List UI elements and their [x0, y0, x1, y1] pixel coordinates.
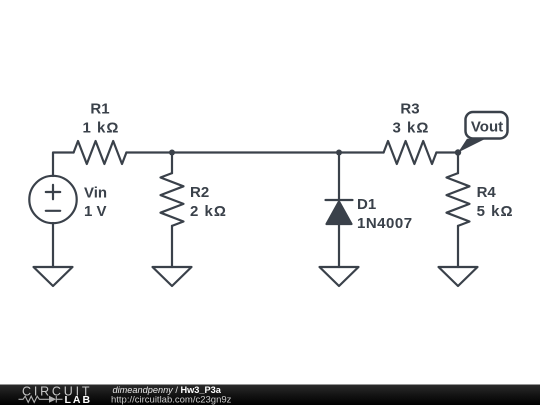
ground at Vin — [34, 267, 73, 286]
svg-text:R3: R3 — [400, 101, 419, 118]
wire Vin- to ground — [52, 223, 54, 267]
wire R3 to node Vout — [436, 151, 458, 153]
resistor R3 — [384, 141, 437, 164]
svg-text:Vout: Vout — [471, 119, 503, 136]
svg-text:3 kΩ: 3 kΩ — [393, 120, 430, 137]
node A junction dot — [169, 150, 175, 156]
svg-text:D1: D1 — [357, 196, 376, 213]
ground at D1 — [320, 267, 359, 286]
wire Vin+ to R1 — [53, 153, 74, 177]
svg-text:1 V: 1 V — [84, 203, 107, 220]
svg-text:R2: R2 — [190, 184, 209, 201]
svg-text:dimeandpenny / Hw3_P3a: dimeandpenny / Hw3_P3a — [113, 385, 222, 395]
wire node Vout to R4 — [457, 153, 459, 174]
ground at R2 — [153, 267, 192, 286]
resistor R1 — [74, 141, 127, 164]
wire node B to D1 — [338, 153, 340, 201]
flag Vout — [458, 112, 508, 153]
svg-text:1N4007: 1N4007 — [357, 215, 413, 232]
svg-text:R4: R4 — [477, 184, 497, 201]
voltage source Vin — [29, 176, 76, 223]
wire node A to R2 — [171, 153, 173, 174]
wire R4 to ground — [457, 226, 459, 267]
svg-text:R1: R1 — [90, 101, 109, 118]
footer logo resistor-diode squiggle — [19, 396, 63, 403]
svg-text:5 kΩ: 5 kΩ — [477, 203, 514, 220]
svg-text:1 kΩ: 1 kΩ — [83, 120, 120, 137]
wire node A to node B — [172, 151, 339, 153]
ground at R4 — [439, 267, 478, 286]
resistor R4 — [447, 173, 470, 226]
node Vout junction dot — [455, 149, 461, 155]
svg-text:http://circuitlab.com/c23gn9z: http://circuitlab.com/c23gn9z — [111, 395, 232, 405]
wire R2 to ground — [171, 226, 173, 267]
node B junction dot — [336, 150, 342, 156]
wire node B to R3 — [339, 151, 384, 153]
svg-text:LAB: LAB — [65, 394, 93, 405]
wire R1 to node A — [126, 151, 172, 153]
wire D1 to ground — [338, 224, 340, 267]
footer bar — [0, 385, 540, 405]
svg-text:Vin: Vin — [84, 185, 107, 202]
diode D1 — [326, 200, 353, 224]
resistor R2 — [161, 173, 184, 226]
svg-text:2 kΩ: 2 kΩ — [190, 203, 227, 220]
